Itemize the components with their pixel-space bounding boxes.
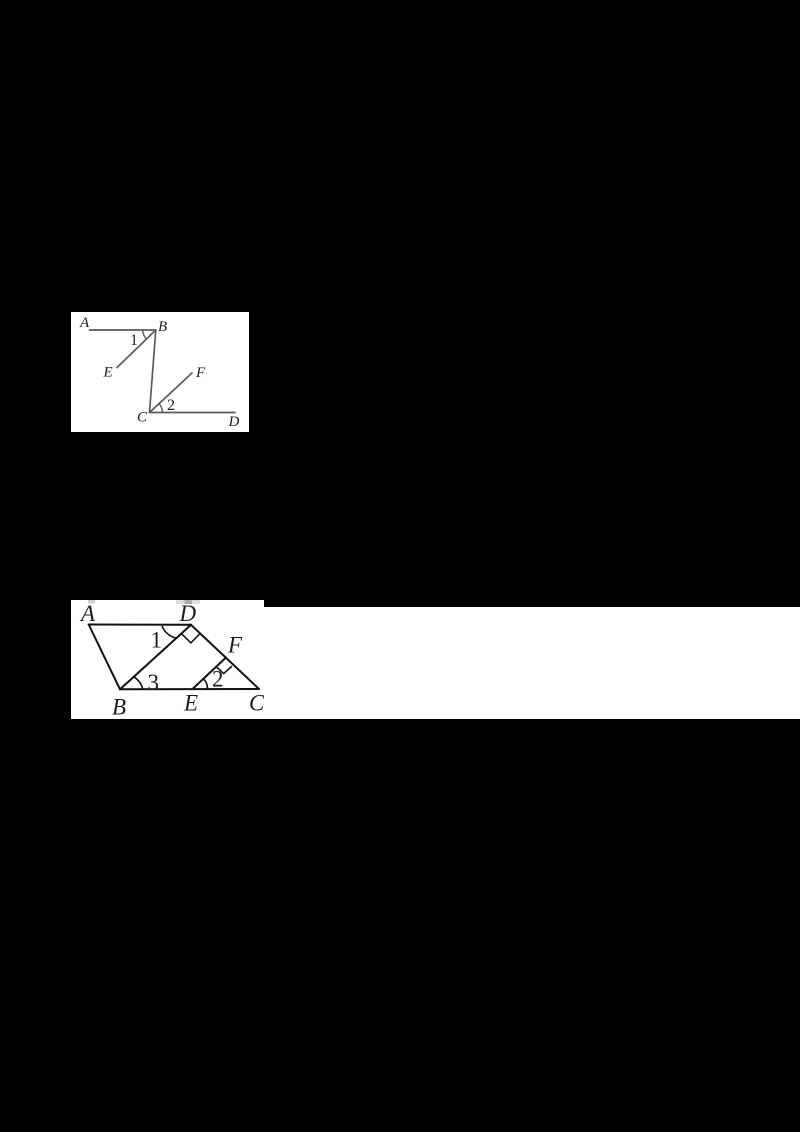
svg-text:C: C: [249, 690, 264, 715]
svg-text:B: B: [112, 694, 126, 719]
svg-text:3: 3: [148, 670, 160, 695]
svg-text:E: E: [183, 690, 198, 715]
svg-text:B: B: [158, 319, 167, 335]
svg-text:D: D: [228, 414, 240, 430]
svg-text:A: A: [79, 315, 90, 331]
svg-text:E: E: [103, 365, 113, 381]
svg-text:F: F: [195, 365, 206, 381]
svg-text:1: 1: [151, 627, 163, 652]
svg-text:1: 1: [130, 332, 138, 349]
svg-text:F: F: [227, 632, 243, 657]
svg-text:2: 2: [167, 397, 175, 414]
svg-text:C: C: [137, 410, 148, 426]
svg-text:A: A: [79, 601, 96, 626]
svg-text:2: 2: [212, 666, 224, 691]
svg-text:D: D: [179, 601, 197, 626]
